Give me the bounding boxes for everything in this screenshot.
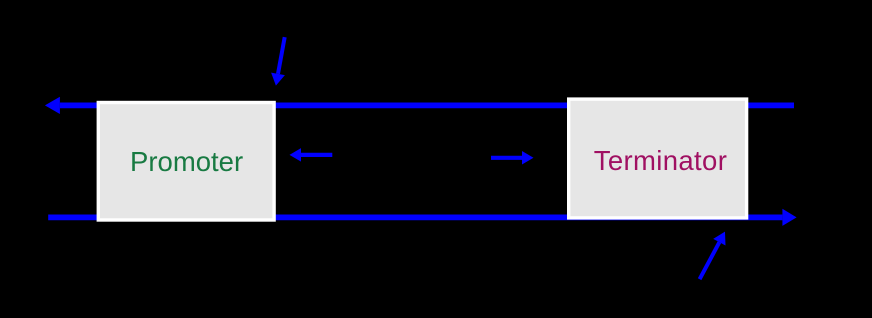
arrow: transcription end (diagonal, points up-right to terminator corner) <box>700 232 726 280</box>
wire: bottom DNA strand <box>48 214 782 220</box>
arrow: small right arrow between boxes <box>491 151 534 165</box>
arrowhead left end of top strand <box>45 97 60 114</box>
arrow: transcription start (diagonal, points down-left to promoter corner) <box>271 37 285 86</box>
wire: top DNA strand <box>60 103 794 109</box>
promoter box <box>98 103 274 221</box>
svg-text:Terminator: Terminator <box>594 145 727 176</box>
svg-text:Promoter: Promoter <box>130 146 243 177</box>
terminator box <box>569 99 747 218</box>
arrowhead right end of bottom strand <box>782 209 796 226</box>
arrow: small left arrow between boxes <box>290 148 333 162</box>
